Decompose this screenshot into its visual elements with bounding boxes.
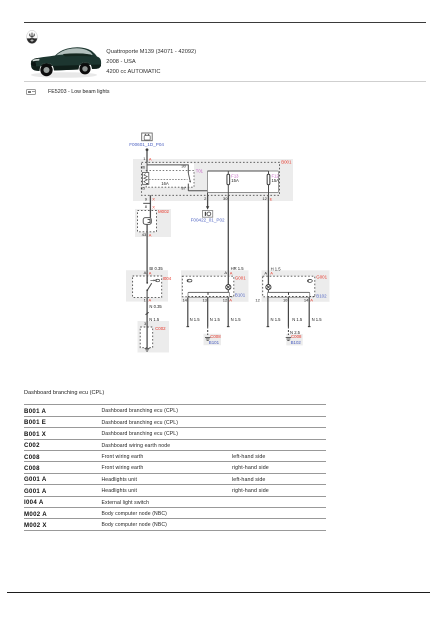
header gray rule <box>24 81 426 82</box>
car photo <box>29 43 103 79</box>
wire F12 to right headlight <box>267 195 269 284</box>
svg-text:16A: 16A <box>161 181 169 186</box>
I004 shaded area <box>126 270 168 301</box>
svg-text:A: A <box>310 298 313 303</box>
header text <box>106 50 196 56</box>
svg-text:12: 12 <box>223 298 228 303</box>
switch I004 <box>146 276 155 297</box>
svg-text:N 0.35: N 0.35 <box>149 304 162 309</box>
wire M002 to I004 <box>146 237 148 282</box>
lamp bulb left <box>226 285 231 293</box>
svg-text:HR 1.5: HR 1.5 <box>231 266 245 271</box>
svg-text:12: 12 <box>255 298 260 303</box>
ground symbol left <box>205 337 210 340</box>
wire I004 to C002 <box>146 297 148 348</box>
svg-text:13: 13 <box>202 298 207 303</box>
svg-text:12: 12 <box>262 196 267 201</box>
headlight glyph right <box>307 279 312 282</box>
junction tick left <box>207 292 209 295</box>
relay module white strip <box>146 163 194 187</box>
bottom rule <box>7 592 430 593</box>
svg-text:30: 30 <box>181 164 186 169</box>
G001 left bottom border over bus <box>188 296 234 298</box>
svg-text:B101: B101 <box>209 340 220 345</box>
svg-text:F00422_01_P02: F00422_01_P02 <box>191 217 225 222</box>
wire stub left1 <box>187 297 190 326</box>
svg-text:X: X <box>152 197 155 202</box>
svg-text:A: A <box>230 270 233 275</box>
wire B001 pin9 to M002 pin8 <box>149 195 151 209</box>
svg-text:G001: G001 <box>316 275 327 280</box>
G001 right dashed box <box>263 276 315 297</box>
fuse feed bus edge <box>208 170 269 172</box>
svg-text:15A: 15A <box>272 178 280 183</box>
top rule <box>24 22 426 24</box>
svg-text:C008: C008 <box>210 334 221 339</box>
G001 left shaded area <box>181 270 249 302</box>
svg-text:A: A <box>264 271 267 276</box>
svg-text:14: 14 <box>304 298 309 303</box>
svg-text:A: A <box>229 298 232 303</box>
G001 right bottom border over bus <box>268 296 315 298</box>
table rows <box>24 404 326 415</box>
wire connector to B001 pin 1 <box>146 150 148 163</box>
C002 dashed box <box>140 327 153 348</box>
M002 dashed box <box>138 211 157 232</box>
M002 connector icon <box>143 210 151 238</box>
wire to earth C008 right <box>287 297 289 335</box>
relay T01 dashed box <box>146 170 194 187</box>
svg-text:43: 43 <box>142 232 147 237</box>
connector F00601_1D_P04 icon <box>142 133 153 141</box>
M002 shaded area <box>135 209 171 237</box>
svg-text:85: 85 <box>141 185 146 190</box>
svg-text:B101: B101 <box>235 293 246 298</box>
ground stud icon F00422_01_P02 <box>203 211 213 218</box>
table title <box>24 391 104 397</box>
svg-text:A: A <box>149 298 152 303</box>
svg-text:N 1.5: N 1.5 <box>292 317 303 322</box>
svg-text:F00601_1D_P04: F00601_1D_P04 <box>129 142 164 147</box>
FE icon <box>26 89 36 95</box>
wire start dot <box>146 148 149 151</box>
connector tick <box>143 202 150 204</box>
relay switch blade <box>188 173 191 191</box>
svg-text:A: A <box>224 270 227 275</box>
ground symbol right <box>286 338 291 341</box>
I004 headlight glyph <box>156 279 160 282</box>
svg-text:N 1.5: N 1.5 <box>190 317 201 322</box>
svg-text:E: E <box>270 196 273 201</box>
wire bus from pin1 to relay pin 30 <box>147 162 188 173</box>
svg-text:A: A <box>270 271 273 276</box>
fuse F13 <box>227 171 230 195</box>
headlight glyph left <box>187 279 192 282</box>
bulb holder bus right <box>268 292 310 297</box>
bulb bus top edge right <box>268 291 310 293</box>
svg-text:14: 14 <box>182 298 187 303</box>
svg-text:B102: B102 <box>291 340 302 345</box>
svg-text:M002: M002 <box>158 209 170 214</box>
wire stub right1 <box>267 297 270 326</box>
svg-text:A: A <box>144 270 147 275</box>
svg-text:N 1.5: N 1.5 <box>312 317 323 322</box>
svg-text:87: 87 <box>181 185 186 190</box>
wire stub left3 <box>227 297 230 326</box>
svg-text:N 1.5: N 1.5 <box>210 317 221 322</box>
lamp bulb right <box>266 285 271 293</box>
ground symbol C002 <box>145 348 150 351</box>
fuse bus box <box>208 171 279 193</box>
svg-text:10: 10 <box>283 298 288 303</box>
fuse F12 <box>267 171 270 195</box>
splice tick <box>146 312 149 314</box>
FE5203 title <box>48 90 110 95</box>
C008 right shaded patch <box>286 334 303 345</box>
bulb bus top edge left <box>188 291 229 293</box>
svg-text:C008: C008 <box>291 334 302 339</box>
svg-text:C002: C002 <box>155 326 166 331</box>
svg-text:T01: T01 <box>196 169 204 174</box>
C008 left shaded patch <box>204 334 222 345</box>
svg-text:B102: B102 <box>316 294 327 299</box>
bulb holder bus left <box>188 292 229 297</box>
wire pin 2 to ground arrow <box>206 195 209 209</box>
svg-text:15A: 15A <box>231 178 239 183</box>
svg-text:N 1.5: N 1.5 <box>231 317 242 322</box>
G001 right shaded area <box>262 270 330 302</box>
relay link dashed line <box>149 178 188 180</box>
svg-text:B001: B001 <box>281 160 292 165</box>
svg-text:A: A <box>149 270 152 275</box>
svg-text:G001: G001 <box>235 275 246 280</box>
wire relay 87 to fuse bus <box>188 190 207 192</box>
svg-text:86: 86 <box>141 165 146 170</box>
wire F13 to left headlight <box>227 195 229 284</box>
svg-text:8: 8 <box>145 204 148 209</box>
svg-text:A: A <box>149 232 152 237</box>
svg-text:30: 30 <box>223 196 228 201</box>
svg-text:N 1.5: N 1.5 <box>149 317 160 322</box>
C002 shaded area <box>138 321 170 353</box>
svg-text:A: A <box>149 156 152 161</box>
svg-text:X: X <box>152 204 155 209</box>
wire stub right3 <box>308 297 311 326</box>
svg-text:BI 0.35: BI 0.35 <box>149 266 163 271</box>
wire pin 2 drop <box>207 193 209 196</box>
svg-text:N 1.5: N 1.5 <box>271 317 282 322</box>
B001 shaded area <box>133 159 293 201</box>
wire to earth C008 left <box>207 297 209 335</box>
B001 dashed box <box>142 162 280 195</box>
maserati trident badge <box>26 30 38 44</box>
junction tick right <box>288 292 290 295</box>
relay coil <box>142 165 148 185</box>
svg-text:I004: I004 <box>163 276 172 281</box>
G001 left dashed box <box>182 276 234 297</box>
I004 dashed box <box>133 276 162 297</box>
